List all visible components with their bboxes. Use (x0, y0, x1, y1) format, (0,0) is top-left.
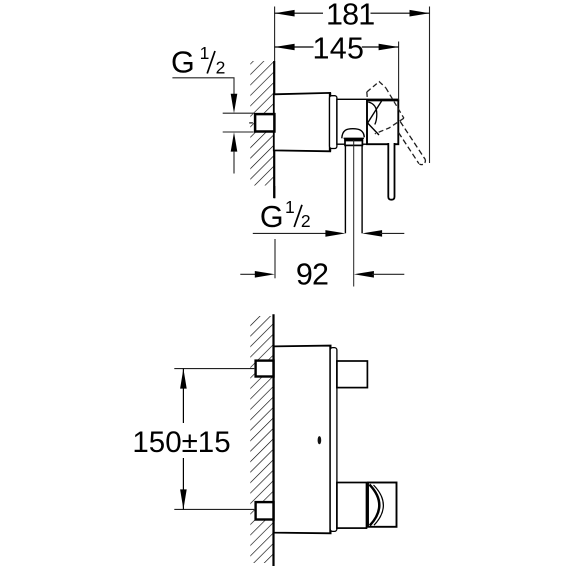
dashed head left edge stub (366, 92, 369, 100)
svg-text:1: 1 (285, 197, 295, 217)
arrow 150 top (180, 369, 187, 389)
pipe center tick (249, 122, 253, 124)
dashed head right edge (386, 88, 404, 118)
shower outlet dome (side view) (342, 129, 365, 139)
dimension 150±15 line (182, 369, 184, 423)
collar ring (side view) (330, 96, 337, 149)
svg-text:2: 2 (216, 57, 226, 77)
extension line left (181/145) (274, 7, 276, 62)
nut shoulder arc thin (374, 485, 384, 525)
extension line upper union center (174, 368, 254, 370)
head chamfer diagonal 2 (368, 123, 379, 135)
svg-text:145: 145 (313, 31, 365, 65)
valve head block (side view) (367, 100, 398, 144)
extension line lower union center (174, 508, 254, 510)
leader line G1/2 top (172, 78, 234, 95)
extension line right 145 (398, 42, 400, 101)
outlet tube right line (361, 146, 363, 234)
outlet nut thick top (344, 139, 363, 142)
arrow 181 left (275, 10, 295, 17)
nut shoulder arc thick (369, 485, 379, 526)
head chamfer diagonal 1 (368, 101, 382, 123)
body escutcheon (side view) (274, 93, 330, 151)
svg-text:2: 2 (301, 211, 311, 231)
pipe extension line bottom (223, 131, 254, 133)
svg-text:G: G (171, 46, 195, 80)
lower wall union (front view) (256, 502, 274, 519)
extension line right 181 (429, 7, 431, 164)
neck (side view) (337, 99, 398, 144)
dome base line (344, 137, 364, 139)
wall hatch (front view) (250, 316, 273, 563)
wall face stub below (side view) (273, 186, 275, 198)
arrow outlet dia right (362, 230, 382, 237)
wall hatch (side view) (250, 61, 273, 186)
upper wall union (front view) (256, 361, 274, 377)
lower hose nut (front view) (368, 483, 397, 527)
dashed lever end cap (419, 159, 426, 164)
body (front view) (274, 346, 331, 534)
leader/dim line G1/2 bottom (253, 232, 326, 234)
lever rod solid (side view) (388, 143, 394, 200)
end cap band (front view) (330, 348, 337, 532)
body end thick edge (front view) (329, 346, 331, 534)
pipe extension line top (223, 112, 254, 114)
dashed head bottom edge (375, 118, 404, 134)
outlet tube left line (344, 146, 346, 234)
svg-text:150±15: 150±15 (132, 426, 230, 459)
arrow outlet dia left (325, 230, 345, 237)
arrow G1/2 bottom (up) (231, 132, 238, 151)
outlet center line (353, 140, 355, 287)
svg-text:181: 181 (326, 0, 375, 32)
wall face line (front view) (272, 314, 274, 566)
dashed head outline top corner (367, 82, 386, 92)
arrow 92 left (255, 271, 275, 278)
marker dot on body (front view) (318, 436, 322, 444)
upper outlet box (front view) (337, 361, 368, 388)
outlet nut (side view) (345, 139, 362, 145)
arrow 181 right (410, 10, 430, 17)
wall face line (side view) (273, 61, 275, 198)
arrow 150 bottom (180, 489, 187, 509)
arrow G1/2 top (down) (231, 94, 238, 113)
supply pipe nipple (side view) (255, 114, 274, 131)
cartridge dome arc inside head (368, 102, 377, 125)
arrow 145 left (275, 44, 295, 51)
extension line wall face for 92 (274, 239, 276, 278)
dimension 181 line (275, 12, 323, 14)
body end thick edge (side view) (329, 93, 331, 151)
dimension 92 left tail (240, 273, 257, 275)
svg-text:1: 1 (200, 43, 210, 63)
svg-text:G: G (260, 200, 284, 234)
dimension 92 right tail (372, 273, 404, 275)
dashed lever edge lower (399, 133, 419, 164)
dashed lever edge upper (400, 122, 425, 160)
lower hose cylinder (front view) (337, 483, 367, 529)
arrow 92 right (354, 271, 374, 278)
svg-text:92: 92 (296, 258, 328, 292)
dimension 145 line (275, 46, 314, 48)
arrow 145 right (379, 44, 399, 51)
